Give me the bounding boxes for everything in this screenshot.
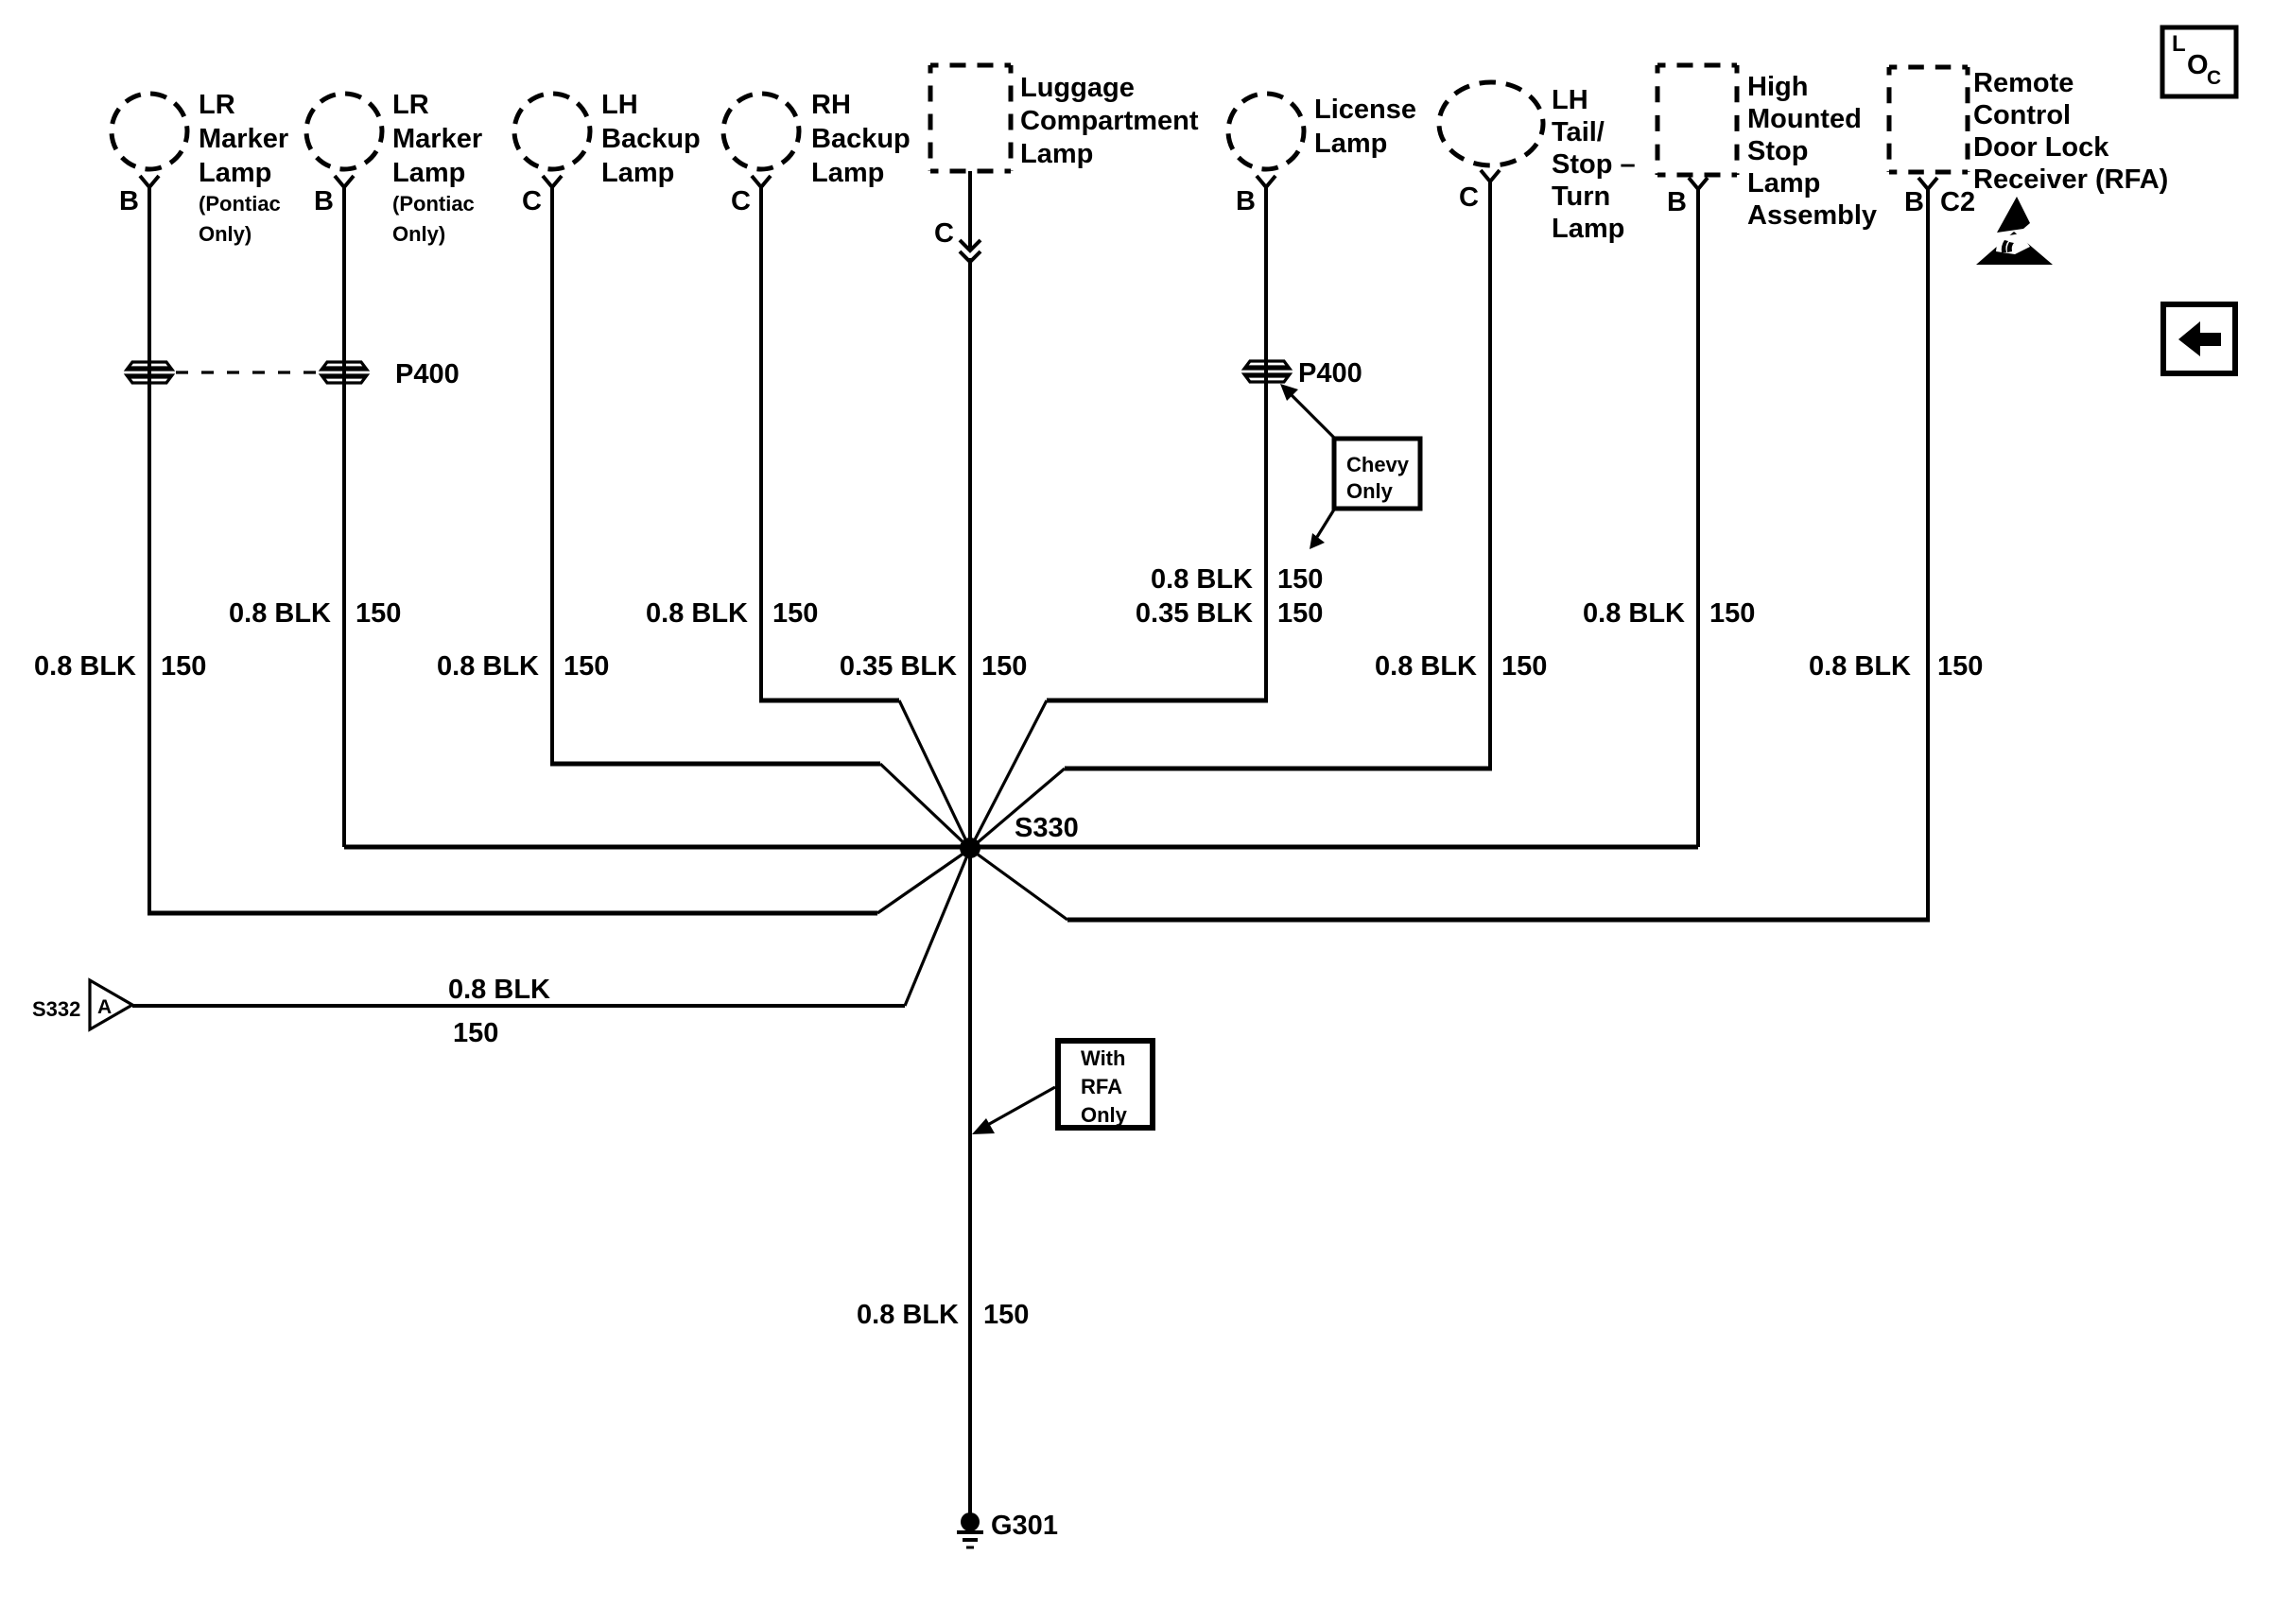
svg-text:Stop –: Stop – [1552, 149, 1636, 180]
connector fork pin B of License Lamp [1257, 176, 1275, 187]
wire trunk S330 to G301 [968, 849, 972, 1513]
wire LH Backup Lamp ground, vertical to level y808 [550, 186, 554, 764]
wire w9 diagonal into S330 [970, 849, 1067, 920]
svg-text:0.35 BLK: 0.35 BLK [1136, 598, 1253, 629]
svg-text:Backup: Backup [811, 124, 911, 154]
svg-text:RH: RH [811, 90, 851, 120]
svg-text:0.8 BLK: 0.8 BLK [1151, 564, 1253, 595]
svg-text:LH: LH [601, 90, 638, 120]
wire High Mounted Stop Lamp ground, vertical [1696, 189, 1700, 847]
svg-text:B: B [1236, 186, 1256, 216]
svg-text:C: C [934, 218, 954, 249]
svg-text:150: 150 [1937, 651, 1983, 682]
lamp LR Marker Lamp 2 (dashed circle) [306, 94, 382, 169]
svg-text:S330: S330 [1015, 813, 1079, 843]
svg-text:LH: LH [1552, 85, 1588, 115]
wire LR Marker Lamp 1 ground, vertical to level y966 [147, 186, 151, 913]
svg-text:Only: Only [1081, 1103, 1128, 1127]
wire w3 horizontal collector y808 [550, 762, 880, 767]
lamp LH Tail/Stop-Turn Lamp (dashed ellipse) [1439, 82, 1543, 165]
svg-text:Lamp: Lamp [199, 158, 271, 188]
svg-text:C: C [522, 186, 542, 216]
splice junction S330 (dot) [960, 838, 980, 858]
wire w7 diagonal into S330 [970, 769, 1065, 849]
lamp RH Backup Lamp (dashed circle) [723, 94, 799, 169]
svg-text:G301: G301 [991, 1511, 1058, 1541]
svg-text:0.8 BLK: 0.8 BLK [1583, 598, 1685, 629]
svg-text:LR: LR [392, 90, 429, 120]
ESD sensitivity symbol (triangle with hand) [1976, 197, 2053, 265]
svg-text:LR: LR [199, 90, 235, 120]
svg-text:150: 150 [356, 598, 401, 629]
svg-text:Door Lock: Door Lock [1973, 132, 2109, 163]
svg-text:S332: S332 [32, 997, 80, 1021]
svg-text:High: High [1747, 72, 1808, 102]
svg-text:Lamp: Lamp [392, 158, 465, 188]
svg-text:150: 150 [564, 651, 609, 682]
ground G301 symbol [961, 1512, 980, 1531]
wire w8 horizontal into S330 (right trunk horizontal y896) [970, 845, 1698, 850]
svg-text:(Pontiac: (Pontiac [392, 192, 475, 216]
svg-text:150: 150 [1277, 598, 1323, 629]
svg-text:Mounted: Mounted [1747, 104, 1862, 134]
svg-text:P400: P400 [1298, 358, 1362, 389]
svg-text:O: O [2187, 50, 2209, 80]
svg-text:Luggage: Luggage [1020, 73, 1135, 103]
arrow from Chevy Only box to wire w6 below [1317, 510, 1334, 537]
svg-text:Marker: Marker [199, 124, 288, 154]
svg-text:0.8 BLK: 0.8 BLK [229, 598, 331, 629]
wire w5 vertical below in-line connector down to S330 [968, 258, 972, 849]
svg-text:Lamp: Lamp [811, 158, 884, 188]
svg-text:Remote: Remote [1973, 68, 2073, 98]
lamp LH Backup Lamp (dashed circle) [514, 94, 590, 169]
svg-text:0.35 BLK: 0.35 BLK [840, 651, 957, 682]
svg-text:0.8 BLK: 0.8 BLK [646, 598, 748, 629]
pass-through grommet P400 on wire w2 [321, 362, 367, 383]
svg-text:Chevy: Chevy [1346, 453, 1410, 476]
svg-text:Marker: Marker [392, 124, 482, 154]
svg-text:0.8 BLK: 0.8 BLK [437, 651, 539, 682]
connector fork pin C of LH Tail/Stop-Turn Lamp [1481, 170, 1500, 181]
wire LH Tail/Stop-Turn Lamp ground, vertical to level y813 [1488, 181, 1492, 769]
svg-text:Compartment: Compartment [1020, 106, 1199, 136]
callout box With RFA Only [1058, 1041, 1153, 1128]
svg-text:C: C [731, 186, 751, 216]
wire RH Backup Lamp ground, vertical to level y741 [759, 186, 763, 700]
connector fork pin C of LH Backup Lamp [543, 176, 562, 187]
svg-text:RFA: RFA [1081, 1075, 1122, 1098]
wire w7 horizontal collector y813 [1065, 767, 1492, 771]
wire w2 horizontal into S330 (left trunk horizontal y896) [344, 845, 970, 850]
svg-text:Lamp: Lamp [601, 158, 674, 188]
pass-through grommet P400 on wire w1 [127, 362, 172, 383]
svg-text:150: 150 [1277, 564, 1323, 595]
lamp License Lamp (dashed circle) [1228, 94, 1304, 169]
pass-through grommet P400 on wire w6 [1244, 361, 1290, 382]
svg-text:Lamp: Lamp [1020, 139, 1093, 169]
svg-text:L: L [2172, 31, 2186, 57]
wire LR Marker Lamp 2 ground, vertical [342, 186, 346, 847]
connector fork pin C of RH Backup Lamp [752, 176, 771, 187]
wire S332 diagonal into S330 [905, 849, 970, 1006]
svg-text:150: 150 [161, 651, 206, 682]
svg-text:A: A [97, 996, 112, 1018]
svg-text:Turn: Turn [1552, 181, 1610, 212]
svg-text:B: B [1904, 187, 1924, 217]
svg-text:0.8 BLK: 0.8 BLK [448, 975, 550, 1005]
dashed link between P400 pass-throughs [176, 371, 322, 373]
svg-text:150: 150 [981, 651, 1027, 682]
wire w4 horizontal collector y741 [759, 699, 899, 703]
svg-text:P400: P400 [395, 359, 460, 389]
svg-text:Stop: Stop [1747, 136, 1808, 166]
wire w9 horizontal collector y973 [1067, 918, 1930, 923]
lamp LR Marker Lamp 1 (dashed circle) [112, 94, 187, 169]
lamp High Mounted Stop Lamp Assembly (dashed box) [1657, 65, 1737, 175]
svg-text:0.8 BLK: 0.8 BLK [34, 651, 136, 682]
connector fork pin B of LR Marker Lamp 1 [140, 176, 159, 187]
svg-text:Backup: Backup [601, 124, 701, 154]
wire w3 diagonal into S330 [880, 764, 970, 849]
svg-text:C2: C2 [1940, 187, 1975, 217]
svg-text:With: With [1081, 1046, 1125, 1070]
wire w6 horizontal collector y741 [1047, 699, 1268, 703]
svg-text:150: 150 [453, 1018, 498, 1048]
connector fork pin B of High Mounted Stop Lamp [1689, 178, 1708, 189]
svg-text:Only: Only [1346, 479, 1394, 503]
svg-text:0.8 BLK: 0.8 BLK [857, 1300, 959, 1330]
svg-text:150: 150 [1709, 598, 1755, 629]
connector fork pin B of LR Marker Lamp 2 [335, 176, 354, 187]
in-line connector arrow C on luggage lamp wire (double chevron) [960, 240, 980, 251]
svg-text:150: 150 [1501, 651, 1547, 682]
connector fork pin B/C2 of Remote Receiver [1918, 178, 1937, 189]
component Remote Control Door Lock Receiver RFA (dashed box) [1889, 67, 1968, 172]
svg-text:C: C [2207, 67, 2221, 89]
svg-text:Assembly: Assembly [1747, 200, 1877, 231]
wire w4 diagonal into S330 [899, 700, 970, 849]
lamp Luggage Compartment Lamp (dashed box) [930, 65, 1011, 171]
wire S332 horizontal y1064 [132, 1004, 905, 1008]
svg-text:(Pontiac: (Pontiac [199, 192, 281, 216]
connector triangle S332 pin A [90, 980, 132, 1029]
arrow from With RFA Only box to trunk wire [984, 1087, 1055, 1127]
wire Remote Control Door Lock Receiver ground, vertical to level y973 [1926, 189, 1930, 920]
callout box Chevy Only [1334, 439, 1420, 509]
svg-text:Lamp: Lamp [1747, 168, 1820, 199]
svg-text:C: C [1459, 182, 1479, 213]
wire w6 diagonal into S330 [970, 700, 1047, 849]
svg-text:Receiver (RFA): Receiver (RFA) [1973, 164, 2168, 195]
wire License Lamp ground, vertical to level y741 [1264, 186, 1268, 700]
page navigation box with left arrow [2163, 304, 2235, 373]
svg-text:0.8 BLK: 0.8 BLK [1375, 651, 1477, 682]
svg-text:B: B [314, 186, 334, 216]
svg-text:150: 150 [983, 1300, 1029, 1330]
svg-text:License: License [1314, 95, 1416, 125]
svg-text:B: B [119, 186, 139, 216]
svg-text:Tail/: Tail/ [1552, 117, 1605, 147]
svg-text:Only): Only) [199, 222, 252, 246]
wire w1 diagonal into S330 [877, 849, 970, 913]
svg-text:150: 150 [772, 598, 818, 629]
svg-text:0.8 BLK: 0.8 BLK [1809, 651, 1911, 682]
page locator box LOC (top right) [2162, 27, 2236, 96]
arrow from Chevy Only box to P400 [1292, 395, 1334, 438]
wire w1 horizontal collector y966 [147, 911, 877, 916]
wire Luggage Compartment Lamp ground, vertical upper segment [968, 171, 972, 248]
svg-text:B: B [1667, 187, 1687, 217]
svg-text:Control: Control [1973, 100, 2071, 130]
svg-text:Only): Only) [392, 222, 445, 246]
svg-text:Lamp: Lamp [1552, 214, 1624, 244]
svg-text:Lamp: Lamp [1314, 129, 1387, 159]
